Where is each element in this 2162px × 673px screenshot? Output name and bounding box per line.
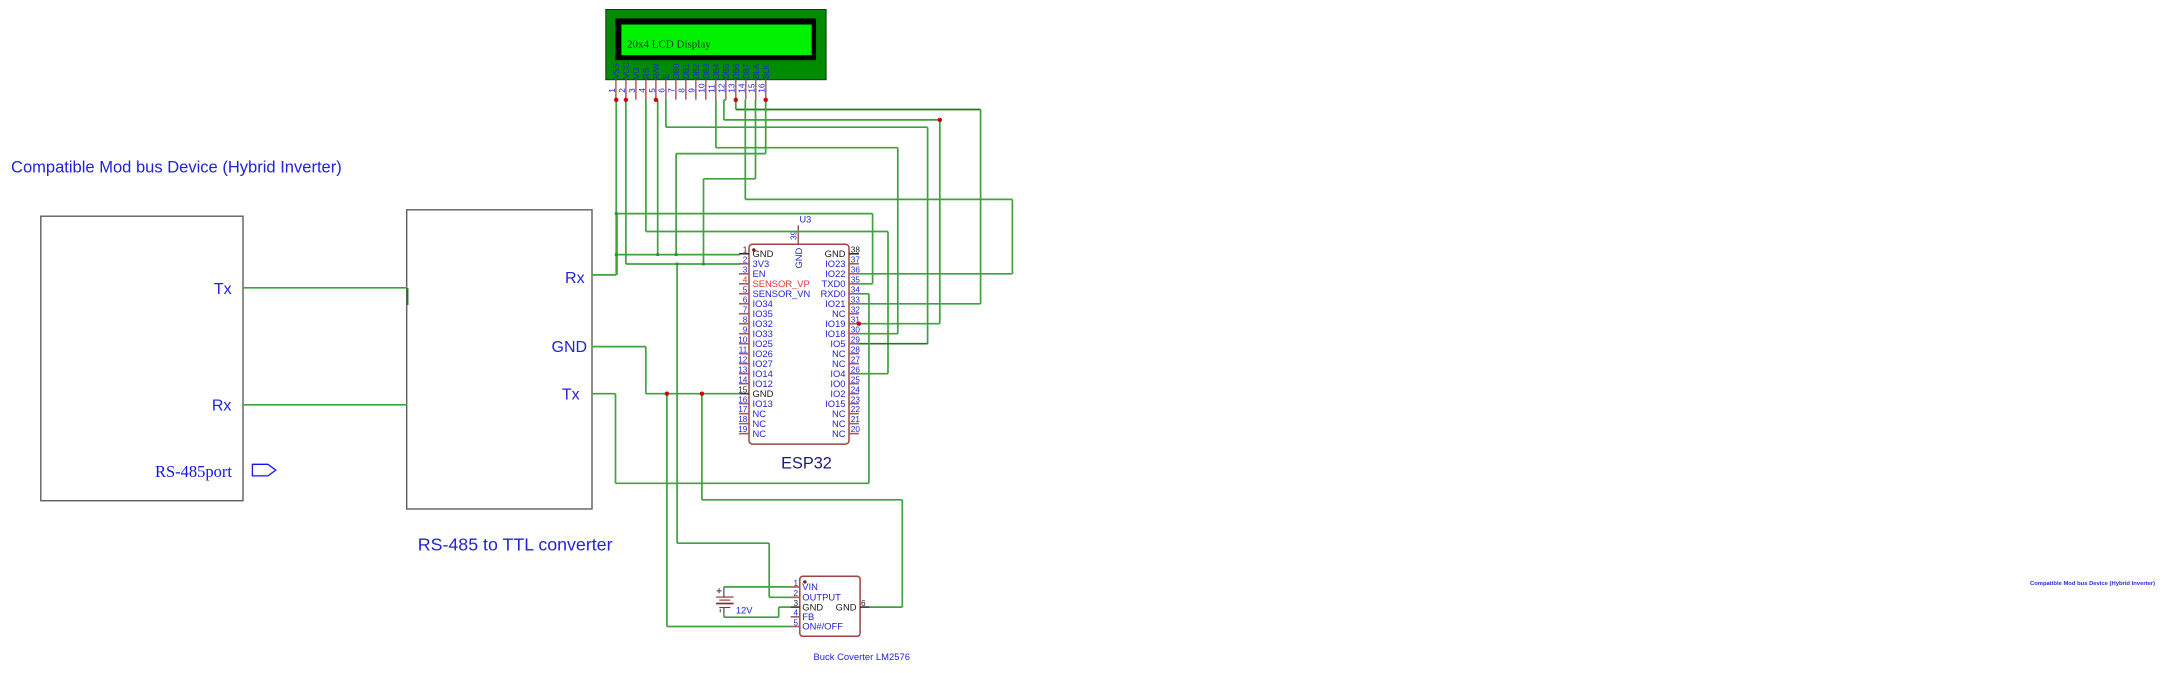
U3 pin 19 NC stub xyxy=(739,433,749,435)
wire 3V3 row to ESP pin2 xyxy=(626,263,740,265)
wire box1 Tx to converter xyxy=(243,287,407,289)
svg-text:19: 19 xyxy=(738,425,748,434)
battery BT1 minus sign xyxy=(719,609,721,613)
U3 pin 20 NC stub xyxy=(849,433,859,435)
Modbus device box (Hybrid Inverter) xyxy=(41,216,243,501)
svg-text:3: 3 xyxy=(793,599,798,608)
battery BT1 plus sign xyxy=(717,590,722,592)
wire battery minus to U2 GND xyxy=(779,606,791,608)
wire GND bus to ESP pin15 xyxy=(646,393,740,395)
svg-text:5: 5 xyxy=(793,618,798,627)
svg-text:28: 28 xyxy=(851,345,861,354)
svg-text:5: 5 xyxy=(743,285,748,294)
wire RS horizontal xyxy=(646,231,888,233)
U3 pin 1 GND stub xyxy=(739,253,749,255)
wire TXD0 riser xyxy=(872,214,874,284)
svg-text:NC: NC xyxy=(832,428,846,439)
U2 pin 5 ON#/OFF stub xyxy=(791,626,800,628)
svg-text:VO: VO xyxy=(632,68,641,79)
LCD pin 13 DB6 stub xyxy=(735,80,737,100)
wire DB4: LCD pin11 down xyxy=(715,100,717,148)
U2 pin 6 GND stub xyxy=(860,606,870,608)
svg-text:38: 38 xyxy=(851,245,861,254)
wire RS drop to IO4 xyxy=(887,232,889,374)
U2 pin 4 FB stub xyxy=(791,616,800,618)
svg-text:Tx: Tx xyxy=(214,281,232,298)
svg-text:2: 2 xyxy=(793,589,798,598)
svg-text:27: 27 xyxy=(851,355,861,364)
U3 pin 14 IO12 stub xyxy=(739,383,749,385)
svg-text:3: 3 xyxy=(627,88,637,93)
wire DB7 to ESP pin36 xyxy=(859,273,1013,275)
wire DB7 horizontal xyxy=(745,198,1012,200)
wire DB6 to ESP pin33 xyxy=(859,303,981,305)
wire BLA: LCD pin15 down xyxy=(755,100,757,179)
U3 pin 36 IO22 stub xyxy=(849,273,859,275)
wire RS: LCD pin4 down xyxy=(645,100,647,232)
LCD pin 8 DB1 stub xyxy=(685,80,687,100)
wire BLK horizontal xyxy=(676,153,766,155)
LCD pin 7 DB0 stub xyxy=(675,80,677,100)
wire BLK: LCD pin16 down xyxy=(765,100,767,154)
svg-text:4: 4 xyxy=(793,609,798,618)
U3 pin 31 IO19 stub xyxy=(849,323,859,325)
U3 pin 4 SENSOR_VP stub xyxy=(739,283,749,285)
svg-text:Compatible Mod bus Device (Hyb: Compatible Mod bus Device (Hybrid Invert… xyxy=(2030,581,2155,587)
svg-text:11: 11 xyxy=(707,84,717,93)
U2 pin 3 GND stub xyxy=(791,606,800,608)
wire GND branch drop right xyxy=(901,500,903,607)
U3 pin 38 GND stub xyxy=(849,253,859,255)
svg-text:6: 6 xyxy=(861,599,866,608)
wire GND branch to U2 ON/OFF drop xyxy=(666,394,668,627)
regulator U2 LM2576 body xyxy=(800,576,860,636)
wire RS to ESP pin26 xyxy=(859,373,888,375)
svg-text:14: 14 xyxy=(737,83,747,93)
wire 3V3 branch down xyxy=(676,264,678,543)
U3 pin 21 NC stub xyxy=(849,423,859,425)
junction LCD pin2 xyxy=(624,98,628,102)
svg-text:23: 23 xyxy=(851,395,861,404)
U3 pin 35 TXD0 stub xyxy=(849,283,859,285)
LCD pin 6 E stub xyxy=(665,80,667,100)
svg-text:7: 7 xyxy=(667,88,677,93)
wire GND branch to U2 pin6 drop xyxy=(701,394,703,500)
wire BLK drop to GND row xyxy=(675,154,677,255)
wire junction blob xyxy=(615,212,618,215)
wire converter Rx to node xyxy=(592,274,616,276)
svg-text:GND: GND xyxy=(836,601,857,612)
U3 pin 17 NC stub xyxy=(739,413,749,415)
U3 pin 1 indicator dot xyxy=(752,248,755,251)
U2 pin 2 OUTPUT stub xyxy=(791,596,800,598)
wire converter Tx riser to RXD0 xyxy=(868,294,870,484)
U3 pin 34 RXD0 stub xyxy=(849,293,859,295)
junction GND bus B xyxy=(700,392,704,396)
svg-text:7: 7 xyxy=(743,305,748,314)
wire DB5: LCD pin12 jog xyxy=(724,99,726,101)
svg-text:U3: U3 xyxy=(800,215,812,225)
svg-text:4: 4 xyxy=(637,88,647,93)
svg-text:1: 1 xyxy=(743,245,748,254)
U3 pin 15 GND stub xyxy=(739,393,749,395)
wire GND branch horizontal xyxy=(702,499,902,501)
U3 pin 9 IO33 stub xyxy=(739,333,749,335)
wire DB6 drop to IO21 xyxy=(980,110,982,304)
wire converter Tx horizontal xyxy=(616,482,869,484)
wire net GND row to ESP pin1 xyxy=(616,254,740,256)
svg-text:Compatible Mod bus Device (Hyb: Compatible Mod bus Device (Hybrid Invert… xyxy=(11,157,342,176)
wire RXD0 to ESP pin34 xyxy=(859,293,869,295)
U3 pin 10 IO25 stub xyxy=(739,343,749,345)
U3 pin 24 IO2 stub xyxy=(849,393,859,395)
LCD pin 10 DB3 stub xyxy=(705,80,707,100)
LCD pin 2 VCC stub xyxy=(625,80,627,100)
LCD pin 9 DB2 stub xyxy=(695,80,697,100)
wire DB6 horizontal xyxy=(736,109,981,111)
LCD pin 4 RS stub xyxy=(645,80,647,100)
svg-text:22: 22 xyxy=(851,405,861,414)
svg-text:1: 1 xyxy=(793,579,798,588)
svg-text:21: 21 xyxy=(851,415,861,424)
svg-text:14: 14 xyxy=(738,375,748,384)
svg-text:BLK: BLK xyxy=(762,63,771,79)
svg-text:12V: 12V xyxy=(736,605,753,615)
svg-text:15: 15 xyxy=(747,83,757,93)
junction GND bus A xyxy=(665,392,669,396)
svg-text:20: 20 xyxy=(851,425,861,434)
U3 pin 26 IO4 stub xyxy=(849,373,859,375)
svg-text:17: 17 xyxy=(738,405,748,414)
wire converter Tx out xyxy=(592,393,616,395)
wire net VSS-GND: LCD pin1 down xyxy=(615,100,617,275)
battery BT1 plate 3 xyxy=(716,603,734,605)
junction LCD pin16 xyxy=(764,98,768,102)
svg-text:DB5: DB5 xyxy=(722,63,731,79)
junction DB5 corner xyxy=(938,118,942,122)
U3 pin 37 IO23 stub xyxy=(849,263,859,265)
U3 pin 13 IO14 stub xyxy=(739,373,749,375)
svg-text:DB0: DB0 xyxy=(672,63,681,79)
wire BLA horizontal xyxy=(704,178,756,180)
wire RW: LCD pin5 jog xyxy=(656,99,658,101)
wire TXD0 horizontal xyxy=(616,213,872,215)
LCD pin 3 VO stub xyxy=(635,80,637,100)
U3 pin 25 IO0 stub xyxy=(849,383,859,385)
U3 pin 11 IO26 stub xyxy=(739,353,749,355)
wire E to ESP pin29 xyxy=(859,343,928,345)
U3 pin 5 SENSOR_VN stub xyxy=(739,293,749,295)
svg-text:11: 11 xyxy=(739,345,748,354)
LCD pin 14 DB7 stub xyxy=(745,80,747,100)
svg-text:10: 10 xyxy=(738,335,748,344)
svg-text:1: 1 xyxy=(607,88,617,93)
junction LCD pin1 xyxy=(614,98,618,102)
wire GND branch to U2 pin6 xyxy=(870,606,903,608)
svg-text:DB2: DB2 xyxy=(692,64,701,79)
wire junction blob xyxy=(702,263,705,266)
wire junction blob xyxy=(676,263,679,266)
svg-text:RS-485port: RS-485port xyxy=(155,462,232,481)
svg-text:Tx: Tx xyxy=(562,387,580,404)
LCD pin 15 BLA stub xyxy=(755,80,757,100)
svg-text:DB4: DB4 xyxy=(712,63,721,79)
wire battery minus horizontal xyxy=(724,616,779,618)
wire DB5 down xyxy=(723,100,725,120)
svg-text:8: 8 xyxy=(743,315,748,324)
svg-text:3: 3 xyxy=(743,265,748,274)
wire E drop to IO5 xyxy=(927,127,929,344)
U2 pin 1 indicator dot xyxy=(803,580,806,583)
wire converter Rx riser xyxy=(616,214,618,275)
svg-text:24: 24 xyxy=(851,385,861,394)
junction LCD pin5 xyxy=(654,98,658,102)
U3 pin 22 NC stub xyxy=(849,413,859,415)
U3 pin 33 IO21 stub xyxy=(849,303,859,305)
svg-text:25: 25 xyxy=(851,375,861,384)
svg-text:9: 9 xyxy=(743,325,748,334)
svg-text:DB1: DB1 xyxy=(682,64,691,79)
svg-text:Rx: Rx xyxy=(212,398,232,415)
U3 pin 30 IO18 stub xyxy=(849,333,859,335)
wire DB7: LCD pin14 down xyxy=(744,100,746,200)
wire DB5 to ESP pin31 xyxy=(859,323,940,325)
svg-text:9: 9 xyxy=(687,88,697,93)
svg-text:DB3: DB3 xyxy=(702,63,711,79)
svg-text:10: 10 xyxy=(697,83,707,93)
U3 pin 28 NC stub xyxy=(849,353,859,355)
LCD screen xyxy=(621,25,811,56)
junction LCD pin13 xyxy=(734,98,738,102)
RS-485 to TTL converter box xyxy=(407,210,592,509)
svg-text:RS: RS xyxy=(642,68,651,79)
U2 pin 1 VIN stub xyxy=(791,586,800,588)
wire junction blob xyxy=(656,253,659,256)
wire converter GND out xyxy=(592,346,646,348)
wire 3V3 branch to U2 OUTPUT xyxy=(769,596,790,598)
svg-text:37: 37 xyxy=(851,255,861,264)
wire 3V3 branch drop xyxy=(768,543,770,597)
wire box1 Rx to converter xyxy=(243,404,407,406)
wire E horizontal xyxy=(666,126,928,128)
LCD pin 11 DB4 stub xyxy=(715,80,717,100)
svg-text:2: 2 xyxy=(743,255,748,264)
wire DB4 to ESP pin30 xyxy=(859,333,898,335)
U3 pin 3 EN stub xyxy=(739,273,749,275)
wire RW: LCD pin5 down to GND row xyxy=(657,100,659,255)
wire junction blob xyxy=(675,253,678,256)
battery BT1 top terminal xyxy=(723,587,725,597)
U3 pin 29 IO5 stub xyxy=(849,343,859,345)
svg-text:DB7: DB7 xyxy=(742,64,751,79)
wire E: LCD pin6 down xyxy=(665,100,667,128)
LCD pin 16 BLK stub xyxy=(765,80,767,100)
svg-text:GND: GND xyxy=(552,339,588,356)
converter edge wire stub xyxy=(407,288,409,305)
junction ESP pin31 xyxy=(857,322,861,326)
svg-text:E: E xyxy=(662,74,671,79)
svg-text:GND: GND xyxy=(793,247,804,268)
svg-text:8: 8 xyxy=(677,88,687,93)
U3 pin 39 stub xyxy=(797,225,799,244)
U3 pin 27 NC stub xyxy=(849,363,859,365)
battery BT1 plate 2 xyxy=(719,599,730,601)
svg-text:2: 2 xyxy=(617,88,627,93)
LCD display DS1 body xyxy=(606,10,826,80)
battery BT1 plate 4 xyxy=(719,607,730,609)
svg-text:5: 5 xyxy=(647,88,657,93)
svg-text:VCC: VCC xyxy=(622,62,631,79)
svg-text:ESP32: ESP32 xyxy=(781,455,832,473)
svg-text:R/W: R/W xyxy=(652,63,661,79)
LCD pin 1 VSS stub xyxy=(615,80,617,100)
svg-text:6: 6 xyxy=(657,88,667,93)
LCD pin 12 DB5 stub xyxy=(725,80,727,100)
svg-text:VSS: VSS xyxy=(612,63,621,79)
svg-text:13: 13 xyxy=(727,83,737,93)
svg-text:20x4 LCD Display: 20x4 LCD Display xyxy=(627,38,711,50)
U3 pin 12 IO27 stub xyxy=(739,363,749,365)
LCD pin 5 R/W stub xyxy=(655,80,657,100)
U3 pin 23 IO15 stub xyxy=(849,403,859,405)
U3 pin 32 NC stub xyxy=(849,313,859,315)
battery BT1 bottom terminal xyxy=(723,608,725,618)
wire DB5 drop to IO19 xyxy=(939,120,941,324)
wire converter GND drop xyxy=(645,347,647,394)
wire GND branch to U2 ON/OFF xyxy=(667,626,791,628)
svg-text:Rx: Rx xyxy=(565,270,585,287)
svg-text:18: 18 xyxy=(738,415,748,424)
LCD bezel xyxy=(615,18,816,60)
U3 pin 8 IO32 stub xyxy=(739,323,749,325)
wire DB6: LCD pin13 down xyxy=(735,100,737,110)
svg-text:RS-485 to TTL converter: RS-485 to TTL converter xyxy=(418,535,613,555)
U3 pin 18 NC stub xyxy=(739,423,749,425)
svg-text:BLA: BLA xyxy=(752,63,761,79)
svg-text:13: 13 xyxy=(738,365,748,374)
wire TXD0 to ESP pin35 xyxy=(859,283,873,285)
wire BLA drop to 3V3 row xyxy=(703,179,705,264)
svg-text:4: 4 xyxy=(743,275,748,284)
battery BT1 plate 1 xyxy=(716,596,734,598)
svg-text:NC: NC xyxy=(753,428,767,439)
wire converter Tx drop xyxy=(615,394,617,484)
wire net VCC: LCD pin2 down xyxy=(625,100,627,264)
U3 pin 2 3V3 stub xyxy=(739,263,749,265)
wire battery minus riser xyxy=(778,607,780,617)
wire 3V3 branch horizontal xyxy=(677,542,769,544)
RS-485 port flag symbol xyxy=(252,464,275,476)
wire DB4 horizontal xyxy=(716,147,898,149)
svg-text:32: 32 xyxy=(851,305,861,314)
U3 pin 7 IO35 stub xyxy=(739,313,749,315)
svg-text:6: 6 xyxy=(743,295,748,304)
op-chip U3 ESP32 body xyxy=(749,244,849,444)
wire DB5 horizontal xyxy=(724,119,940,121)
U3 pin 16 IO13 stub xyxy=(739,403,749,405)
svg-text:12: 12 xyxy=(717,83,727,93)
U3 pin 6 IO34 stub xyxy=(739,303,749,305)
wire junction blob xyxy=(615,253,618,256)
svg-text:16: 16 xyxy=(757,83,767,93)
svg-text:16: 16 xyxy=(738,395,748,404)
svg-text:DB6: DB6 xyxy=(732,63,741,79)
svg-text:12: 12 xyxy=(738,355,748,364)
wire battery plus to U2 VIN xyxy=(724,586,791,588)
wire DB7 drop to IO22 xyxy=(1011,199,1013,273)
wire DB4 drop to IO18 xyxy=(897,148,899,334)
svg-text:Buck Coverter LM2576: Buck Coverter LM2576 xyxy=(814,652,911,663)
svg-text:ON#/OFF: ON#/OFF xyxy=(802,621,843,632)
